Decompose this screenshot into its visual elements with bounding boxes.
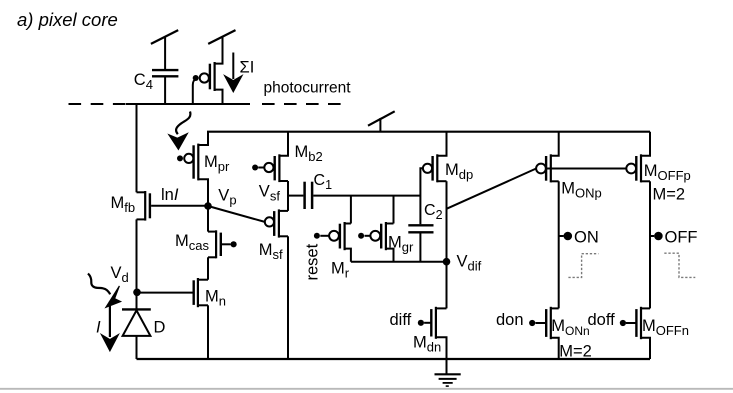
wire: bus to Mfb drain [136,103,138,192]
arrow I (photocurrent through diode) [101,302,118,351]
wire: photocurrent bus dashed right [262,103,344,105]
transistor Mpr [177,132,208,206]
power rail tick (above summing transistor) [208,30,235,44]
transistor Mdn [418,307,447,359]
transistor Mn [137,278,208,307]
page rule (grey) [0,388,733,390]
wire: C4 top stub [164,37,166,69]
wire: MONp drain down to MONn [558,181,560,308]
waveform: OFF step down (dashed) [664,253,695,277]
svg-text:ON: ON [574,228,599,246]
svg-text:M=2: M=2 [653,186,686,204]
wire: photocurrent bus dashed left [69,103,128,105]
svg-text:photocurrent: photocurrent [264,80,352,97]
arrow SigmaI (summed photocurrent) [224,53,242,93]
node Vd [133,289,141,297]
svg-text:don: don [496,311,524,329]
wire: Mn source down to ground rail [207,305,209,359]
wire: MOFFp drain down to MOFFn [649,181,651,308]
transistor Mgr [358,222,393,262]
transistor Mcas [208,230,237,258]
wire: MONp gate to MOFFp gate [547,168,627,170]
transistor Mb2 [252,132,288,182]
node Vdif [443,258,451,266]
wire: Vdif to comparator gates (slanted) [447,169,537,209]
svg-text:doff: doff [588,311,616,329]
transistor MONp [536,132,559,183]
wire: C1 to Mdp gate / C2 node [313,195,420,197]
wire: Msf drain down to ground rail [287,236,289,359]
wire: Mcas source down to Mn drain [207,257,209,279]
wire: ground rail [137,358,651,360]
svg-text:a) pixel core: a) pixel core [17,9,118,30]
node ON [559,232,572,241]
photodiode D [122,292,151,359]
transistor Mr [314,222,351,262]
wire: Mb2 drain to Msf source [287,181,289,211]
svg-text:reset: reset [304,243,322,280]
transistor Mfb [137,191,150,221]
photocurrent arrow into Mpr [169,112,191,150]
wire: Mfb gate to Vp [151,205,208,207]
transistor MOFFn [620,307,650,359]
wire: Vsf node to C1 [288,195,303,197]
transistor MONn [529,307,559,359]
wire: riser to Mr source [350,196,352,224]
svg-text:D: D [154,319,166,337]
svg-text:ΣI: ΣI [240,59,255,77]
wire: photocurrent bus solid centre [126,103,250,105]
light arrow at photodiode [88,274,121,308]
wire: VDD rail [207,131,650,133]
wire: Mdp gate stub [420,168,422,224]
waveform: ON step up (dashed) [568,254,598,278]
wire: Vp to Msf gate (slanted) [208,206,265,222]
transistor MOFFp [626,132,650,183]
svg-text:diff: diff [390,311,412,329]
wire: Vp down to Mcas [207,206,209,232]
wire: summing PMOS gate to bus [193,79,196,104]
svg-text:I: I [96,319,101,337]
wire: Mdp drain down through Vdif to Mdn [446,181,448,308]
node OFF [650,232,663,241]
power rail tick (above C4) [151,30,178,44]
ground symbol [435,359,461,386]
wire: C4 bottom stub to photocurrent bus [164,78,166,105]
wire: Mr/Mgr drains to Vdif [351,261,447,263]
node Vp [204,202,212,210]
capacitor C4 [152,70,178,76]
transistor Mdp [423,132,447,183]
wire: C2 bottom to Vdif wire [419,234,421,262]
transistor Msf [265,209,288,237]
wire: Mfb source down to Vd [136,219,138,292]
svg-text:OFF: OFF [665,228,698,246]
svg-text:lnI: lnI [161,186,179,204]
transistor: summing PMOS (unlabelled) [193,37,223,104]
power rail tick on VDD rail [368,111,395,131]
wire: riser to Mgr source [393,196,395,224]
capacitor C2 [408,225,433,232]
capacitor C1 [305,182,313,209]
